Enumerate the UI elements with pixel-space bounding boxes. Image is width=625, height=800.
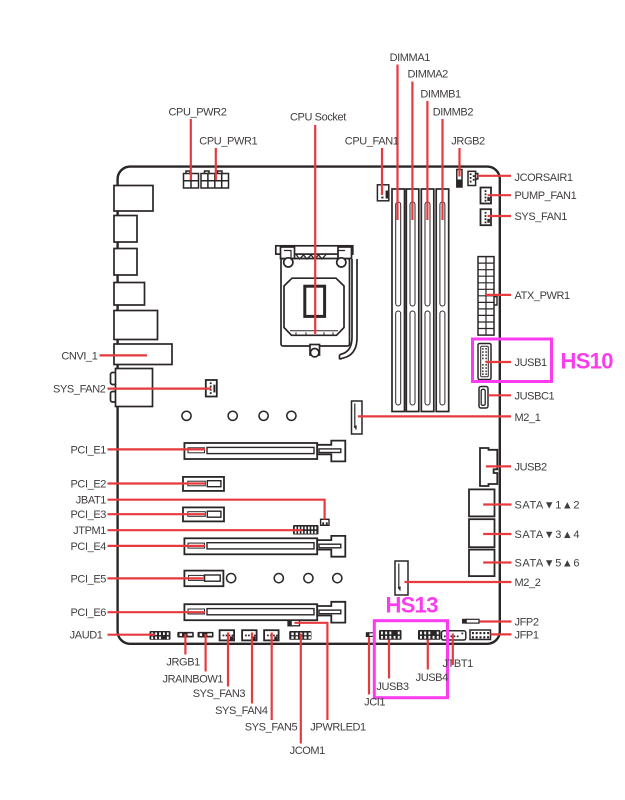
svg-text:CPU_PWR1: CPU_PWR1 [199,136,257,148]
svg-text:DIMMB2: DIMMB2 [433,107,474,119]
svg-text:PCI_E4: PCI_E4 [70,541,106,553]
svg-text:ATX_PWR1: ATX_PWR1 [515,290,571,302]
svg-text:JUSB4: JUSB4 [416,672,449,684]
svg-text:SYS_FAN5: SYS_FAN5 [245,722,298,734]
svg-text:JUSB1: JUSB1 [515,357,548,369]
svg-text:JCORSAIR1: JCORSAIR1 [515,172,573,184]
svg-text:JPWRLED1: JPWRLED1 [310,722,366,734]
svg-text:SYS_FAN2: SYS_FAN2 [53,384,106,396]
svg-text:SYS_FAN3: SYS_FAN3 [193,688,246,700]
svg-text:SATA▼5▲6: SATA▼5▲6 [515,558,581,570]
svg-text:JFP1: JFP1 [515,629,539,641]
svg-text:PCI_E6: PCI_E6 [70,607,106,619]
svg-text:JRGB2: JRGB2 [451,136,485,148]
svg-text:SATA▼1▲2: SATA▼1▲2 [515,500,581,512]
svg-text:DIMMA2: DIMMA2 [408,69,449,81]
svg-text:JCOM1: JCOM1 [290,745,326,757]
svg-text:JFP2: JFP2 [515,617,539,629]
svg-text:JRGB1: JRGB1 [166,657,200,669]
svg-text:DIMMA1: DIMMA1 [390,52,431,64]
svg-text:HS10: HS10 [561,349,614,374]
svg-text:PCI_E5: PCI_E5 [70,573,106,585]
svg-text:JTBT1: JTBT1 [443,658,474,670]
svg-text:JUSBC1: JUSBC1 [515,390,555,402]
svg-text:PCI_E2: PCI_E2 [70,479,106,491]
svg-text:CNVI_1: CNVI_1 [61,351,97,363]
svg-text:SYS_FAN4: SYS_FAN4 [215,705,268,717]
svg-text:HS13: HS13 [386,593,439,618]
svg-text:SATA▼3▲4: SATA▼3▲4 [515,529,581,541]
svg-text:CPU_FAN1: CPU_FAN1 [345,136,399,148]
svg-text:DIMMB1: DIMMB1 [420,89,461,101]
svg-text:SYS_FAN1: SYS_FAN1 [515,211,568,223]
svg-text:JUSB2: JUSB2 [515,462,548,474]
svg-text:M2_2: M2_2 [515,577,541,589]
svg-text:JCI1: JCI1 [364,697,385,709]
svg-text:M2_1: M2_1 [515,412,541,424]
svg-text:PCI_E3: PCI_E3 [70,509,106,521]
svg-text:JAUD1: JAUD1 [70,630,103,642]
svg-text:CPU Socket: CPU Socket [290,112,346,124]
svg-text:JTPM1: JTPM1 [73,525,106,537]
svg-text:PCI_E1: PCI_E1 [70,445,106,457]
svg-text:CPU_PWR2: CPU_PWR2 [169,107,227,119]
svg-text:JBAT1: JBAT1 [76,495,106,507]
svg-text:JRAINBOW1: JRAINBOW1 [163,674,224,686]
svg-text:JUSB3: JUSB3 [376,681,409,693]
svg-text:PUMP_FAN1: PUMP_FAN1 [515,190,577,202]
